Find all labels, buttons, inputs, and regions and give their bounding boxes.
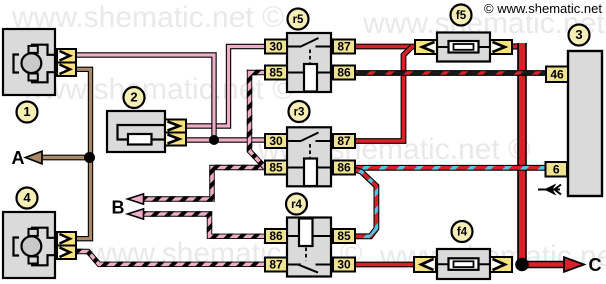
svg-text:30: 30 xyxy=(269,134,283,148)
svg-text:85: 85 xyxy=(337,229,351,243)
svg-text:2: 2 xyxy=(130,90,137,105)
svg-text:r3: r3 xyxy=(294,107,305,119)
svg-text:3: 3 xyxy=(575,27,582,42)
svg-text:B: B xyxy=(112,198,125,218)
svg-text:85: 85 xyxy=(269,66,283,80)
svg-text:4: 4 xyxy=(23,190,31,205)
svg-text:87: 87 xyxy=(269,258,283,272)
svg-text:C: C xyxy=(589,255,602,275)
svg-text:86: 86 xyxy=(337,161,351,175)
svg-text:1: 1 xyxy=(23,104,30,119)
svg-text:A: A xyxy=(12,148,25,168)
svg-text:30: 30 xyxy=(337,258,351,272)
svg-text:f4: f4 xyxy=(457,227,468,239)
svg-text:30: 30 xyxy=(269,40,283,54)
svg-text:86: 86 xyxy=(337,66,351,80)
svg-text:6: 6 xyxy=(553,162,560,176)
svg-text:46: 46 xyxy=(550,67,564,81)
svg-text:r5: r5 xyxy=(293,14,304,26)
svg-text:f5: f5 xyxy=(456,10,467,22)
svg-text:r4: r4 xyxy=(291,199,302,211)
svg-text:86: 86 xyxy=(269,229,283,243)
svg-text:85: 85 xyxy=(269,161,283,175)
svg-text:87: 87 xyxy=(337,40,351,54)
svg-text:87: 87 xyxy=(337,134,351,148)
svg-text:www.shematic.net ©: www.shematic.net © xyxy=(21,73,294,106)
